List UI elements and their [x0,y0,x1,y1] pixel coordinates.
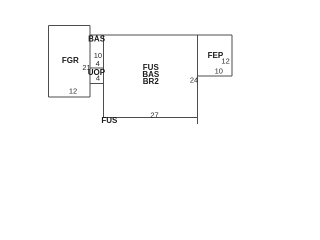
svg-text:BAS: BAS [88,34,106,43]
main building right wall [197,35,199,124]
FEP porch bottom wall [198,75,233,77]
top wall of main building and FEP porch [90,34,232,36]
svg-text:27: 27 [150,110,158,119]
svg-text:10: 10 [215,67,223,76]
FGR garage top wall [49,25,91,27]
FGR garage bottom wall [49,96,91,98]
svg-text:4: 4 [96,73,100,82]
svg-text:FUS: FUS [101,116,118,125]
svg-text:BR2: BR2 [143,77,160,86]
main building bottom wall [104,117,198,119]
svg-text:12: 12 [69,87,77,96]
FGR garage right wall / BAS-UOP strip left wall [89,26,91,98]
svg-text:24: 24 [190,75,198,84]
svg-text:4: 4 [96,59,100,68]
divider wall between BAS bump and UOP porch [90,67,104,69]
UOP porch bottom wall [90,83,104,85]
main building left wall [103,35,105,118]
FEP porch right wall [231,35,233,76]
svg-text:12: 12 [221,56,229,65]
FGR garage left wall [48,26,50,98]
svg-text:FGR: FGR [62,56,79,65]
